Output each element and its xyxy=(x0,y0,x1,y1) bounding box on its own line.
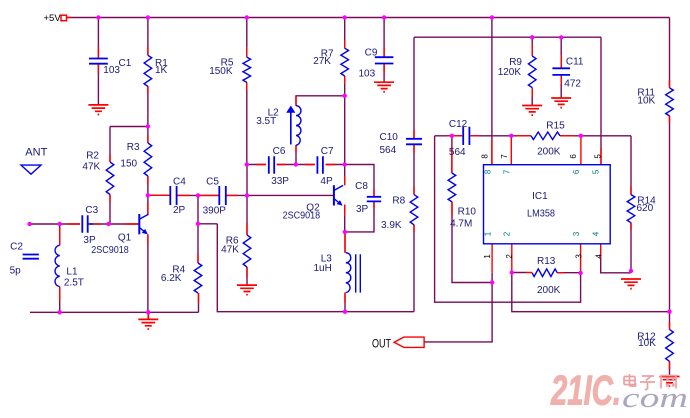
ground R9 xyxy=(522,106,542,116)
svg-text:150: 150 xyxy=(120,158,137,169)
wire pin2 down right xyxy=(512,273,670,312)
wire R4 top / C4 node vertical xyxy=(197,195,199,263)
svg-text:10K: 10K xyxy=(638,338,656,349)
node L1 top xyxy=(58,222,62,226)
svg-text:C10: C10 xyxy=(380,132,399,143)
svg-text:21IC.: 21IC. xyxy=(550,367,621,414)
svg-text:103: 103 xyxy=(359,69,376,80)
capacitor C6 33P xyxy=(269,156,274,174)
node Q1 collector xyxy=(146,193,150,197)
svg-text:3.5T: 3.5T xyxy=(256,116,276,127)
svg-text:6: 6 xyxy=(572,169,581,174)
wire R2 top horizontal xyxy=(110,126,148,128)
svg-text:200K: 200K xyxy=(537,285,561,296)
wire L1 branch xyxy=(59,224,61,312)
ground R6 xyxy=(237,285,257,295)
svg-text:2P: 2P xyxy=(173,205,186,216)
svg-text:4: 4 xyxy=(592,231,601,236)
resistor R6 47K xyxy=(243,235,251,267)
pins C3 xyxy=(68,223,139,225)
resistor R14 620 xyxy=(627,195,635,223)
pins R1 xyxy=(147,47,149,94)
wire C8 branch xyxy=(345,165,374,232)
svg-text:2: 2 xyxy=(505,254,514,259)
node R9 top xyxy=(530,35,534,39)
resistor R9 120K xyxy=(528,56,536,88)
svg-text:C5: C5 xyxy=(206,176,219,187)
svg-text:C1: C1 xyxy=(119,58,132,69)
wire C5 node up to C6 node xyxy=(246,165,248,196)
pins R3 xyxy=(147,136,149,185)
wire bypass to right rail xyxy=(198,224,414,312)
svg-text:1K: 1K xyxy=(155,65,168,76)
pins L1 xyxy=(59,228,61,302)
svg-text:1uH: 1uH xyxy=(314,263,332,274)
wire +5V top rail xyxy=(67,17,670,19)
pins R7 xyxy=(344,40,346,84)
wire R6 branch xyxy=(246,195,248,285)
svg-text:47K: 47K xyxy=(221,244,239,255)
svg-text:Q1: Q1 xyxy=(118,232,132,243)
node base wire left end xyxy=(27,222,31,226)
inductor L1 2.5T xyxy=(55,245,60,286)
wire R10 branch xyxy=(452,136,492,283)
inductor L2 adjust arrow xyxy=(286,106,295,145)
wire C1 branch xyxy=(97,18,99,105)
node L1 bottom xyxy=(58,310,62,314)
svg-text:C4: C4 xyxy=(173,176,186,187)
pins C4 xyxy=(150,194,190,196)
svg-text:4P: 4P xyxy=(320,176,333,187)
wire L2 loop top xyxy=(296,96,345,106)
pins C1 xyxy=(97,47,99,73)
svg-text:564: 564 xyxy=(449,147,466,158)
svg-text:R3: R3 xyxy=(127,142,140,153)
wire C9 branch xyxy=(383,18,385,83)
resistor R11 10K xyxy=(666,88,674,116)
pins R15 xyxy=(517,135,575,137)
svg-text:620: 620 xyxy=(637,203,654,214)
wire R2 vertical xyxy=(109,127,111,225)
GROUNDS xyxy=(88,82,679,386)
ground C11 xyxy=(551,98,571,108)
node C9 top xyxy=(382,15,386,19)
svg-text:103: 103 xyxy=(103,65,120,76)
pins R8 xyxy=(413,187,415,232)
power port +5V xyxy=(61,15,67,21)
pin 4 xyxy=(600,244,602,258)
svg-text:47K: 47K xyxy=(82,162,100,173)
svg-text:R10: R10 xyxy=(458,207,477,218)
wire Q1 base row xyxy=(30,223,140,225)
svg-text:C7: C7 xyxy=(321,146,334,157)
pin 3 xyxy=(580,244,582,273)
svg-text:OUT: OUT xyxy=(372,336,391,350)
pins C6 xyxy=(256,164,286,166)
node pin3 xyxy=(578,271,582,275)
wire R1 branch xyxy=(147,18,149,127)
node pin4 R14 xyxy=(629,269,633,273)
pins C9 xyxy=(383,47,385,74)
svg-text:3: 3 xyxy=(574,254,583,259)
wire Q1 emitter down xyxy=(147,234,149,312)
resistor R5 150K xyxy=(243,57,251,82)
wire C10 R8 vertical xyxy=(413,37,415,312)
node Q1 emitter ground xyxy=(146,310,150,314)
wire R12 bottom to ground xyxy=(669,361,671,376)
node C6 left xyxy=(245,162,249,166)
node R10 top xyxy=(450,134,454,138)
svg-text:C3: C3 xyxy=(85,205,98,216)
svg-text:472: 472 xyxy=(564,78,581,89)
wire C12 R15 row xyxy=(435,135,631,137)
svg-text:C9: C9 xyxy=(365,48,378,59)
resistor R8 3.9K xyxy=(410,195,418,225)
resistor R12 10K xyxy=(666,329,674,361)
ground C9 xyxy=(374,82,394,92)
pin 1 xyxy=(491,244,493,273)
wire R9 branch xyxy=(531,37,533,105)
svg-text:R13: R13 xyxy=(537,256,556,267)
resistor R3 150 xyxy=(144,143,152,176)
svg-text:27K: 27K xyxy=(313,56,331,67)
svg-text:564: 564 xyxy=(380,145,397,156)
pins R12 xyxy=(669,322,671,369)
ground C1 xyxy=(88,105,108,115)
wire R13 row xyxy=(512,272,581,274)
svg-text:C2: C2 xyxy=(10,242,23,253)
pins R13 xyxy=(526,272,564,274)
wire R4 bottom stub xyxy=(198,293,200,312)
svg-text:C8: C8 xyxy=(355,181,368,192)
ground emitter rail xyxy=(138,312,158,329)
node pin2 xyxy=(510,270,514,274)
svg-text:IC1: IC1 xyxy=(532,191,548,202)
svg-text:120K: 120K xyxy=(498,67,522,78)
svg-text:6.2K: 6.2K xyxy=(161,273,182,284)
capacitor C11 472 xyxy=(552,68,570,75)
svg-text:+5V: +5V xyxy=(44,13,62,24)
wire R12 top stub xyxy=(669,312,671,330)
svg-text:2SC9018: 2SC9018 xyxy=(91,245,129,256)
wire R3 vertical xyxy=(147,127,149,196)
pin 7 xyxy=(510,136,512,165)
svg-text:390P: 390P xyxy=(203,206,227,217)
pin 2 xyxy=(511,244,513,273)
wire Q1 collector node row C4 C5 xyxy=(148,194,334,196)
pins pin8 xyxy=(491,140,493,165)
pins R5 xyxy=(246,47,248,91)
svg-text:R8: R8 xyxy=(392,195,405,206)
svg-text:150K: 150K xyxy=(209,66,233,77)
pins Q1 xyxy=(147,203,149,244)
pins R2 xyxy=(109,155,111,202)
svg-text:C12: C12 xyxy=(449,119,468,130)
wire right edge down to R11 xyxy=(669,18,671,88)
svg-text:C11: C11 xyxy=(566,57,584,68)
node R7 bottom xyxy=(343,94,347,98)
PORTS xyxy=(21,15,424,347)
resistor R2 47K xyxy=(106,162,114,194)
watermark 21IC xyxy=(550,367,688,415)
transistor Q1 2SC9018 xyxy=(139,214,148,234)
svg-text:200K: 200K xyxy=(537,146,561,157)
svg-text:3: 3 xyxy=(572,231,581,236)
capacitor C7 4P xyxy=(317,156,323,174)
wire C11 branch xyxy=(560,37,562,97)
node C1 top xyxy=(96,15,100,19)
wire Q1 collector stub xyxy=(147,195,149,214)
node C7 right xyxy=(343,162,347,166)
pins R14 xyxy=(630,187,632,230)
pins R4 xyxy=(197,254,200,303)
pins Q2 xyxy=(344,176,346,216)
transistor Q2 2SC9018 xyxy=(334,185,343,205)
capacitor C8 3P xyxy=(367,197,381,202)
wire R11 bottom to R12 node xyxy=(669,116,671,312)
node R2 bottom xyxy=(106,222,110,226)
node L3 bottom xyxy=(343,310,347,314)
capacitor C9 103 xyxy=(375,57,394,63)
wire second rail xyxy=(414,36,601,38)
pins R11 xyxy=(669,80,671,123)
wire Q2 collector stub xyxy=(344,165,346,186)
capacitor C2 5p xyxy=(23,255,39,259)
inductor L2 3.5T coil xyxy=(296,106,301,146)
svg-text:7: 7 xyxy=(503,169,512,174)
svg-text:4.7M: 4.7M xyxy=(450,218,472,229)
capacitor C3 3P xyxy=(82,215,87,232)
inductor L3 1uH coil xyxy=(346,253,351,293)
op-amp U1 IC1 LM358 box xyxy=(484,165,611,244)
pins R6 xyxy=(246,223,248,277)
pins C5 xyxy=(198,194,238,196)
wire pin3 big loop to C12 xyxy=(435,136,581,302)
node R12 top xyxy=(667,310,671,314)
svg-text:5: 5 xyxy=(592,169,601,174)
pins L3 xyxy=(344,232,346,303)
wire L2 bottom stub xyxy=(295,145,297,164)
capacitor C12 564 xyxy=(463,127,469,145)
node C11 top xyxy=(559,35,563,39)
pin 6 xyxy=(580,136,582,165)
svg-text:8: 8 xyxy=(484,169,493,174)
capacitor C5 390P xyxy=(219,186,226,205)
svg-text:3P: 3P xyxy=(356,204,369,215)
svg-text:4: 4 xyxy=(595,254,604,259)
svg-text:LM358: LM358 xyxy=(527,209,555,220)
pins pin5 xyxy=(600,148,602,165)
ground R12 xyxy=(660,377,680,387)
node R2 top xyxy=(146,124,150,128)
svg-text:com: com xyxy=(622,382,688,414)
node pin6 xyxy=(579,134,583,138)
pins R9 xyxy=(531,44,533,97)
svg-text:L1: L1 xyxy=(66,266,78,277)
resistor R7 27K xyxy=(341,48,349,76)
capacitor C10 564 xyxy=(406,139,422,145)
svg-text:1: 1 xyxy=(483,254,492,259)
node R7 top xyxy=(343,15,347,19)
node Q2 emitter xyxy=(343,230,347,234)
pins C10 xyxy=(413,130,415,153)
svg-text:2SC9018: 2SC9018 xyxy=(283,211,321,222)
svg-text:3.9K: 3.9K xyxy=(381,220,402,231)
wire pin5 drop xyxy=(600,37,602,165)
svg-text:2: 2 xyxy=(503,231,512,236)
node R5 top xyxy=(245,15,249,19)
svg-text:5: 5 xyxy=(593,154,602,159)
wire R14 vertical xyxy=(630,136,632,271)
pins R10 xyxy=(451,147,453,215)
wire C6 C7 row xyxy=(247,164,345,166)
capacitor C1 103 xyxy=(89,59,108,64)
resistor R4 6.2K xyxy=(194,263,202,293)
svg-text:R15: R15 xyxy=(546,120,565,131)
wire L3 branch xyxy=(344,232,346,312)
wire R7 branch xyxy=(344,18,346,165)
resistor R15 200K horizontal xyxy=(531,132,560,140)
svg-text:6: 6 xyxy=(569,154,578,159)
svg-text:R2: R2 xyxy=(86,151,99,162)
resistor R10 4.7M xyxy=(448,173,456,202)
pins C8 xyxy=(373,190,375,209)
pins C11 xyxy=(560,55,562,84)
pins C12 xyxy=(447,135,479,137)
node pin7 xyxy=(509,134,513,138)
capacitor C4 2P xyxy=(170,186,176,205)
resistor R1 1K xyxy=(144,55,152,86)
wire +5V stub xyxy=(67,17,72,19)
wire pin1 to OUT xyxy=(424,273,492,342)
svg-text:7: 7 xyxy=(500,154,509,159)
svg-text:C6: C6 xyxy=(273,146,286,157)
wire pin4 to ground node xyxy=(601,258,631,273)
RED PINS xyxy=(60,18,670,370)
svg-text:8: 8 xyxy=(481,154,490,159)
port ANT triangle xyxy=(21,165,41,174)
svg-text:33P: 33P xyxy=(271,176,289,187)
svg-text:ANT: ANT xyxy=(25,147,47,159)
node C4 C5 junction xyxy=(196,193,200,197)
wire pin8 drop from +5V xyxy=(491,18,493,165)
pins C7 xyxy=(305,164,335,166)
ground R14 pin4 xyxy=(621,279,641,289)
svg-text:5p: 5p xyxy=(10,266,22,277)
node R1 top xyxy=(146,15,150,19)
pins L2 xyxy=(295,97,297,153)
node R4 top xyxy=(196,222,200,226)
inductor L3 core lines xyxy=(356,254,361,292)
node C6 C7 junction xyxy=(294,162,298,166)
svg-text:10K: 10K xyxy=(637,96,655,107)
node C5 right xyxy=(245,193,249,197)
wire bottom left rail xyxy=(30,311,199,313)
wire R5 branch xyxy=(246,18,248,165)
port OUT arrow xyxy=(394,337,424,347)
svg-text:1: 1 xyxy=(484,231,493,236)
svg-text:2.5T: 2.5T xyxy=(64,278,84,289)
wire Q2 emitter down xyxy=(344,205,346,232)
resistor R13 200K horizontal xyxy=(532,269,557,277)
node pin8 rail xyxy=(490,15,494,19)
node pin1 xyxy=(490,280,494,284)
